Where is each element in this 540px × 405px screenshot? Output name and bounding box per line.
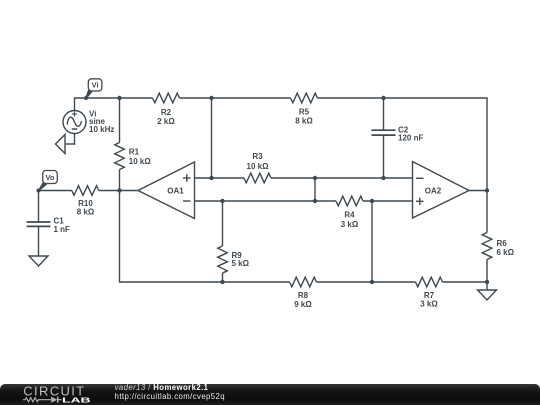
op-amp OA1 (output faces left) [138, 162, 195, 219]
ground (C1) [29, 256, 48, 266]
resistor R2 [153, 93, 180, 103]
wire [371, 201, 373, 282]
wire [486, 98, 488, 191]
ground (left-pointing, at source) [56, 135, 66, 154]
svg-text:3 kΩ: 3 kΩ [420, 300, 438, 309]
wire R9 lower lead [222, 273, 224, 282]
wire [195, 177, 245, 179]
wire [469, 190, 488, 192]
wire C2 bottom lead [383, 135, 385, 178]
junction [117, 188, 121, 192]
wire [120, 281, 290, 283]
junction [209, 96, 213, 100]
svg-text:5 kΩ: 5 kΩ [232, 259, 250, 268]
svg-text:120 nF: 120 nF [398, 133, 423, 142]
svg-text:Vi: Vi [92, 81, 99, 90]
svg-text:OA2: OA2 [425, 186, 442, 195]
svg-text:R2: R2 [161, 108, 172, 117]
junction [220, 199, 224, 203]
svg-text:Vo: Vo [46, 173, 55, 182]
svg-text:R7: R7 [424, 291, 435, 300]
wire [119, 98, 121, 143]
node Vi attach [84, 96, 88, 100]
wire [119, 191, 121, 283]
net flag Vo [39, 182, 47, 190]
svg-text:8 kΩ: 8 kΩ [295, 117, 313, 126]
wire [271, 177, 413, 179]
voltage source Vi [63, 111, 86, 134]
junction [370, 280, 374, 284]
resistor R1 [115, 143, 125, 170]
ground (right) [478, 290, 497, 300]
resistor R8 [290, 277, 317, 287]
resistor R7 [416, 277, 443, 287]
resistor R4 [336, 196, 363, 206]
footer bar [0, 384, 540, 405]
junction [313, 199, 317, 203]
resistor R3 [244, 173, 271, 183]
op-amp OA2 [413, 162, 470, 219]
wire [74, 134, 76, 145]
wire C1 bottom lead [38, 226, 40, 256]
svg-text:LAB: LAB [62, 397, 91, 404]
svg-text:R5: R5 [299, 108, 310, 117]
wire [486, 260, 488, 283]
wire [314, 178, 316, 201]
resistor R10 [72, 186, 99, 196]
wire top-left segment [75, 97, 153, 99]
CircuitLab logo [0, 384, 110, 405]
svg-text:R4: R4 [344, 210, 355, 219]
wire source top [74, 97, 76, 110]
footer text [115, 384, 225, 402]
svg-text:R8: R8 [298, 291, 309, 300]
wire [443, 281, 488, 283]
resistor R5 [291, 93, 318, 103]
wire [195, 200, 337, 202]
wire [99, 190, 139, 192]
node Vo [37, 189, 41, 193]
wire top middle segment [180, 97, 291, 99]
resistor R9 [218, 246, 228, 273]
svg-text:R3: R3 [252, 152, 263, 161]
svg-text:6 kΩ: 6 kΩ [497, 248, 515, 257]
wire [119, 170, 121, 191]
wire C2 top lead [383, 98, 385, 130]
junction [370, 199, 374, 203]
svg-text:10 kΩ: 10 kΩ [129, 157, 152, 166]
svg-text:10 kHz: 10 kHz [89, 125, 114, 134]
wire top right segment [318, 97, 488, 99]
wire to ground [65, 143, 75, 145]
junction [117, 96, 121, 100]
wire [486, 282, 488, 290]
junction [381, 176, 385, 180]
junction [209, 176, 213, 180]
wire C1 top lead [38, 191, 40, 223]
junction [485, 280, 489, 284]
wire [39, 190, 72, 192]
wire R9 upper lead [222, 201, 224, 246]
svg-text:3 kΩ: 3 kΩ [341, 220, 359, 229]
wire [211, 98, 213, 178]
svg-text:1 nF: 1 nF [54, 225, 71, 234]
svg-text:9 kΩ: 9 kΩ [294, 300, 312, 309]
junction [220, 280, 224, 284]
junction [381, 96, 385, 100]
wire [317, 281, 416, 283]
wire [363, 200, 413, 202]
net flag Vi [86, 90, 92, 98]
junction [485, 188, 489, 192]
svg-text:OA1: OA1 [167, 186, 184, 195]
svg-text:2 kΩ: 2 kΩ [157, 117, 175, 126]
svg-text:10 kΩ: 10 kΩ [247, 162, 270, 171]
wire [486, 191, 488, 233]
svg-text:8 kΩ: 8 kΩ [77, 207, 95, 216]
svg-text:R1: R1 [129, 147, 140, 156]
junction [313, 176, 317, 180]
resistor R6 [482, 233, 492, 260]
